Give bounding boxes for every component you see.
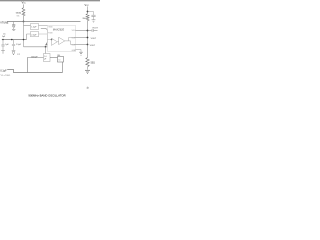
wire amp2 output down to OUT2 pin	[69, 41, 76, 45]
svg-text:GND: GND	[72, 50, 77, 52]
svg-text:VOUT: VOUT	[92, 28, 98, 30]
svg-text:1pF: 1pF	[2, 36, 6, 38]
tank bus wire	[2, 39, 27, 41]
pin stub OUT row	[76, 37, 88, 39]
op-amp U1 IC box MAX2620	[48, 25, 76, 51]
wire node E to bypass cap	[88, 12, 94, 15]
svg-text:1.5pF: 1.5pF	[16, 44, 22, 46]
wire R2 to ground	[87, 67, 89, 70]
wire box C8 down to bottom net	[62, 62, 64, 73]
capacitor C3 branch	[2, 39, 4, 41]
node A junction dot	[23, 21, 25, 23]
ground for C4	[12, 49, 16, 51]
wire box C7 to box C8	[50, 57, 58, 59]
pin stub OUT2 row	[76, 44, 88, 46]
svg-text:VTUNE: VTUNE	[0, 22, 9, 25]
top border line	[0, 0, 100, 1]
wire box C2 to IC	[39, 33, 48, 35]
svg-text:0.1µF: 0.1µF	[0, 69, 7, 72]
node B junction dot	[11, 39, 13, 41]
component box C8	[58, 57, 64, 63]
svg-text:MAX2620: MAX2620	[53, 28, 65, 32]
svg-text:50: 50	[58, 59, 60, 61]
wire amp1 to amp2	[57, 41, 58, 43]
ground for GND pin	[79, 51, 83, 53]
capacitor C1 plates	[12, 24, 15, 26]
wire VCC right stem	[87, 6, 89, 13]
node H junction dot	[87, 44, 89, 46]
varactor D1 branch stub	[13, 22, 15, 25]
wire node A to right rail (top bus)	[24, 21, 81, 23]
wire bias row	[24, 46, 48, 48]
component box C2	[31, 32, 39, 37]
ground for R2	[85, 69, 90, 71]
wire VCC arrow stem	[23, 4, 25, 7]
svg-text:VOUT: VOUT	[91, 38, 97, 40]
buffer amp 2 triangle	[59, 37, 65, 44]
svg-text:2.2pF: 2.2pF	[31, 34, 37, 36]
svg-text:*L1 = TOKO: *L1 = TOKO	[0, 75, 10, 77]
wire amp2 output up to OUT pin	[65, 38, 76, 41]
wire R1 to node A	[23, 16, 25, 22]
wire node E2 down to box C7	[45, 47, 47, 54]
pin stub VCC row	[76, 30, 88, 32]
node F junction dot	[87, 30, 89, 32]
capacitor C5 bypass plates	[91, 14, 95, 16]
svg-text:900MHz BAND OSCILLATOR: 900MHz BAND OSCILLATOR	[28, 93, 65, 97]
node E2 junction dot	[45, 46, 47, 48]
svg-text:VOUT: VOUT	[90, 45, 96, 47]
wire rail to load resistor	[87, 45, 89, 58]
pin stub GND row	[76, 50, 82, 52]
component box L1	[31, 24, 39, 30]
inductor L2 on rail	[86, 14, 89, 21]
node E junction dot	[87, 11, 89, 13]
svg-text:1pF: 1pF	[5, 44, 9, 46]
wire C6 to VOUT	[94, 30, 98, 32]
svg-text:2.2: 2.2	[17, 54, 20, 56]
wire bus to box C2	[27, 33, 31, 35]
wire node A down to tank bus	[23, 22, 25, 47]
wire rail down	[87, 21, 89, 45]
wire label to bottom net	[7, 70, 62, 73]
svg-text:VCC: VCC	[22, 2, 27, 5]
buffer amp 1 triangle	[51, 38, 57, 45]
svg-text:✱: ✱	[86, 86, 89, 90]
resistor R2 load	[86, 58, 89, 67]
capacitor C6 series plates	[91, 29, 93, 32]
varactor D1 triangle	[12, 26, 15, 28]
svg-text:VCC: VCC	[85, 3, 90, 7]
node D junction dot inside IC	[48, 39, 52, 41]
component box C7	[44, 54, 51, 62]
capacitor C4 branch	[13, 40, 15, 45]
ground for C5	[92, 19, 96, 21]
hook arrow (tuning arrow)	[41, 29, 48, 44]
node C junction dot	[23, 39, 25, 41]
svg-text:5%: 5%	[17, 15, 20, 17]
wire node A branch to box L1	[24, 25, 31, 27]
svg-text:560Ω: 560Ω	[16, 13, 22, 15]
wire VTUNE to node A	[7, 21, 23, 23]
resistor R1	[22, 8, 25, 16]
svg-text:1000pF: 1000pF	[31, 56, 39, 58]
wire OUT row to coupling cap	[88, 30, 92, 32]
node G junction dot	[87, 37, 89, 39]
wire riser bus to C2	[26, 34, 28, 40]
wire box L1 to IC	[39, 25, 48, 27]
svg-text:50Ω: 50Ω	[91, 63, 96, 65]
ground for C3	[1, 50, 5, 52]
svg-text:1.5pF: 1.5pF	[31, 27, 37, 29]
wire riser to box C7	[28, 58, 44, 73]
ground for D1	[12, 28, 15, 30]
